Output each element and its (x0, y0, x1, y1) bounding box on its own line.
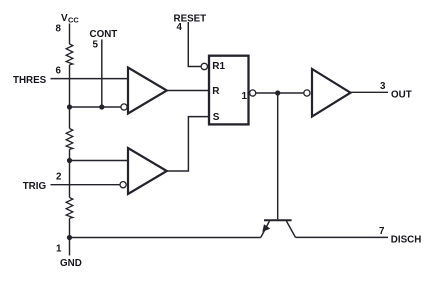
svg-text:1: 1 (242, 91, 248, 102)
wire CONT line (101, 40, 103, 108)
pin bubble output buffer input (304, 90, 310, 96)
wire OUT line (351, 91, 389, 93)
wire ground rail to transistor emitter (70, 237, 261, 239)
node CONT junction (99, 104, 104, 109)
wire comparator-2 non-inverting input line (70, 160, 129, 162)
svg-text:V: V (61, 13, 68, 24)
latch U3 flip-flop box (209, 56, 249, 125)
pin bubble comparator-1 inverting input (121, 104, 127, 110)
label DISCH pin 7 (379, 226, 421, 246)
label RESET pin 4 (174, 13, 207, 33)
wire RESET line (188, 22, 201, 67)
node divider junction B (67, 158, 72, 163)
svg-text:DISCH: DISCH (391, 234, 421, 245)
svg-text:8: 8 (56, 24, 62, 35)
wire DISCH line (296, 236, 389, 238)
pin bubble R1 reset input (201, 63, 207, 69)
svg-text:S: S (213, 112, 220, 123)
resistor R2 (middle divider) (66, 129, 73, 150)
wire divider chain upper segment (69, 65, 71, 129)
svg-text:3: 3 (380, 81, 386, 92)
transistor Q1 base bar (264, 219, 292, 221)
svg-text:1: 1 (56, 244, 62, 255)
pin bubble comparator-2 inverting input (120, 182, 126, 188)
wire divider chain bottom segment (69, 218, 71, 237)
svg-text:R: R (212, 86, 220, 97)
label TRIG pin 2 (23, 171, 62, 192)
label GND pin 1 (56, 244, 82, 270)
label VCC pin 8 (56, 13, 80, 35)
transistor Q1 emitter arrowhead (262, 224, 270, 232)
svg-text:OUT: OUT (391, 90, 412, 101)
svg-text:2: 2 (56, 171, 62, 182)
wire comparator-1 inverting input line (70, 106, 121, 108)
resistor R3 (bottom divider) (66, 198, 73, 219)
wire TRIG line (51, 184, 120, 186)
wire latch output to buffer (256, 92, 304, 94)
wire comparator-1 output to R (167, 90, 209, 92)
svg-text:7: 7 (379, 226, 385, 237)
node output junction (275, 90, 280, 95)
transistor Q1 emitter (261, 221, 270, 237)
wire comparator-2 output to S (167, 117, 209, 171)
wire divider chain middle segment (69, 149, 71, 197)
node GND junction (67, 235, 72, 240)
svg-text:GND: GND (60, 258, 82, 269)
wire junction to transistor base (277, 93, 279, 219)
svg-text:6: 6 (56, 66, 62, 77)
node divider junction A (67, 104, 72, 109)
op-amp comparator U1 (threshold) (128, 68, 167, 114)
op-amp comparator U2 (trigger) (128, 148, 167, 194)
op-amp output buffer U4 (312, 69, 351, 117)
resistor R1 (top divider) (66, 44, 73, 65)
label CONT pin 5 (90, 29, 118, 50)
svg-text:CC: CC (68, 16, 79, 25)
transistor Q1 collector (286, 221, 295, 237)
svg-text:TRIG: TRIG (23, 181, 47, 192)
label THRES pin 6 (13, 66, 62, 87)
wire VCC stub (69, 24, 71, 45)
wire GND pin stub (69, 238, 71, 256)
wire THRES line (51, 78, 129, 80)
svg-text:5: 5 (93, 39, 99, 50)
svg-text:4: 4 (177, 22, 183, 33)
label OUT pin 3 (380, 81, 412, 101)
svg-text:THRES: THRES (13, 75, 47, 86)
svg-text:R1: R1 (212, 61, 225, 72)
pin bubble latch output (250, 90, 256, 96)
